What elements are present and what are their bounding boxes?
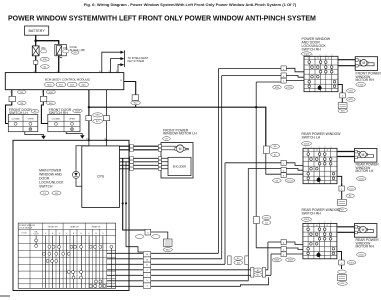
svg-text:5: 5: [324, 222, 325, 224]
svg-text:SWITCH LH: SWITCH LH: [302, 136, 321, 140]
svg-text:LOCK: LOCK: [22, 232, 28, 234]
svg-text:2: 2: [318, 222, 319, 224]
svg-text:1: 1: [305, 222, 306, 224]
svg-text:3: 3: [332, 55, 333, 57]
svg-text:2: 2: [320, 55, 321, 57]
svg-text:CPU: CPU: [97, 175, 105, 179]
svg-text:ENCODER: ENCODER: [173, 165, 186, 169]
svg-text:2: 2: [319, 147, 320, 149]
svg-text:CLOSED: CLOSED: [52, 119, 61, 121]
svg-text:MOTOR RH: MOTOR RH: [356, 78, 375, 82]
svg-text:BATTERY: BATTERY: [28, 29, 45, 33]
svg-text:SWITCH RH: SWITCH RH: [302, 48, 322, 52]
svg-text:SWITCH: SWITCH: [39, 185, 53, 189]
svg-text:5: 5: [326, 55, 327, 57]
svg-text:D203: D203: [288, 180, 294, 182]
svg-text:3: 3: [330, 222, 331, 224]
svg-text:REAR RH: REAR RH: [92, 226, 101, 229]
svg-text:LOCK: LOCK: [34, 234, 40, 236]
svg-text:POWER WINDOW SYSTEM/WITH LEFT: POWER WINDOW SYSTEM/WITH LEFT FRONT ONLY…: [8, 15, 316, 22]
svg-text:D106: D106: [358, 84, 364, 86]
svg-text:4: 4: [310, 222, 311, 224]
svg-text:4: 4: [312, 55, 313, 57]
svg-text:CLOSED: CLOSED: [11, 119, 20, 121]
svg-text:WINDOW MOTOR LH: WINDOW MOTOR LH: [163, 132, 197, 136]
svg-text:15A: 15A: [63, 46, 68, 50]
svg-text:OPEN: OPEN: [27, 119, 33, 121]
svg-text:KEY SYSTEM: KEY SYSTEM: [128, 59, 145, 63]
svg-text:MOTOR LH: MOTOR LH: [356, 169, 374, 173]
svg-text:1: 1: [305, 147, 306, 149]
svg-text:Fig. 6: Wiring Diagram - Power: Fig. 6: Wiring Diagram - Power Window Sy…: [84, 2, 297, 7]
svg-text:D105: D105: [287, 87, 293, 89]
svg-text:D304: D304: [359, 254, 365, 256]
svg-text:4: 4: [311, 147, 312, 149]
svg-text:B108: B108: [75, 111, 81, 113]
svg-text:D303: D303: [288, 260, 294, 262]
svg-text:B306: B306: [274, 260, 280, 262]
svg-text:BCM (BODY CONTROL MODULE): BCM (BODY CONTROL MODULE): [45, 77, 90, 81]
svg-text:D204: D204: [359, 178, 365, 180]
svg-text:SWITCH RH: SWITCH RH: [302, 212, 322, 216]
svg-text:M: M: [179, 147, 182, 151]
svg-text:FRONT RH: FRONT RH: [48, 227, 58, 229]
svg-text:30A: 30A: [41, 46, 46, 50]
svg-text:MOTOR RH: MOTOR RH: [356, 245, 375, 249]
svg-text:LOCK SWITCH: LOCK SWITCH: [19, 227, 33, 229]
svg-text:1: 1: [306, 55, 307, 57]
svg-text:REAR LH: REAR LH: [70, 226, 79, 229]
svg-text:3: 3: [331, 147, 332, 149]
svg-text:D304: D304: [349, 262, 355, 264]
svg-text:5: 5: [325, 147, 326, 149]
svg-text:D203: D203: [304, 143, 310, 145]
svg-text:OPEN: OPEN: [69, 119, 75, 121]
